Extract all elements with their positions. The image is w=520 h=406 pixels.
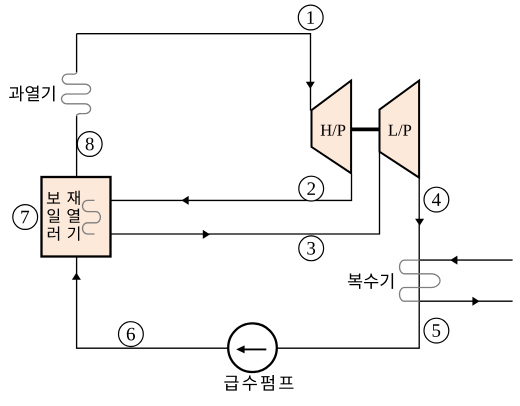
node circle 2 xyxy=(299,176,324,201)
node circle 3 xyxy=(299,236,324,261)
node circle 5 xyxy=(424,318,449,343)
arrow on line 4 (down) xyxy=(415,219,424,226)
node circle 8 xyxy=(77,132,102,157)
reheater coil inside box xyxy=(83,200,101,234)
box text 보 xyxy=(47,192,60,204)
box text 러 xyxy=(48,226,59,240)
condenser cooling water inlet xyxy=(420,259,513,261)
box text 기 xyxy=(68,226,80,240)
arrow on line 2 (left) xyxy=(182,196,189,205)
wire: superheater outlet top run to turbine inlet xyxy=(77,34,311,111)
label 과열기 (superheater) xyxy=(9,86,54,102)
wire: reheater to L/P inlet (line 3) xyxy=(94,152,380,234)
label 급수펌프 (feed pump) xyxy=(224,375,293,391)
wire: H/P exhaust to reheater (line 2) xyxy=(94,175,352,201)
wire: L/P exhaust down through condenser to bottom run (line 4) xyxy=(77,177,420,348)
node circle 7 xyxy=(13,205,38,230)
boiler / reheater box xyxy=(42,177,111,257)
label 복수기 (condenser) xyxy=(348,273,393,289)
arrow into boiler bottom (up) xyxy=(72,273,81,280)
box text 일 xyxy=(48,209,60,223)
box text 열 xyxy=(67,209,79,223)
wire: superheater coil down to boiler top xyxy=(76,116,78,177)
condenser coil xyxy=(400,260,441,301)
H/P turbine xyxy=(312,81,352,174)
superheater coil xyxy=(61,72,90,116)
arrow into H/P turbine (down) xyxy=(306,82,315,89)
node circle 4 xyxy=(424,187,449,212)
node circle 1 xyxy=(298,5,323,30)
node circle 6 xyxy=(118,322,143,347)
turbine shaft xyxy=(351,128,379,132)
arrow on line 3 (right) xyxy=(203,230,210,239)
condenser cooling water outlet xyxy=(420,300,513,302)
feed pump xyxy=(228,323,277,372)
box text 재 xyxy=(67,191,79,205)
L/P turbine xyxy=(380,81,420,178)
wire: top run down to superheater coil xyxy=(76,34,78,73)
